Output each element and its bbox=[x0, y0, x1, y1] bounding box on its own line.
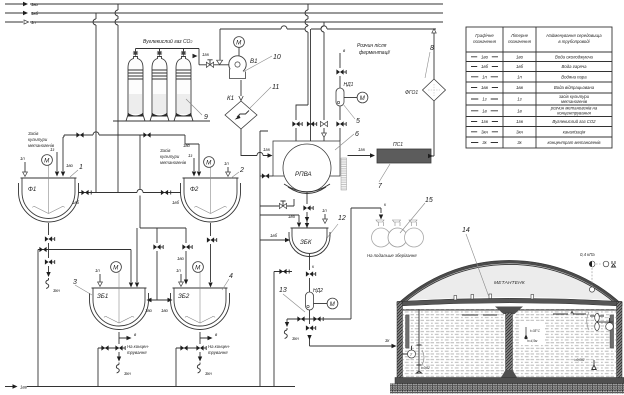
svg-text:метаногенів: метаногенів bbox=[561, 99, 588, 104]
collector vertical x260 bbox=[260, 131, 268, 386]
svg-text:ЗБ1: ЗБ1 bbox=[97, 293, 108, 300]
pipe 1п header line L3 bbox=[5, 21, 443, 23]
valve with handwheel bbox=[206, 60, 213, 68]
svg-text:3: 3 bbox=[73, 279, 77, 286]
vessel РПВА bbox=[273, 141, 347, 194]
РПВА bottom drain line left bbox=[260, 205, 294, 207]
feed pipes into Ф1 top bbox=[57, 135, 64, 171]
wire x140 drop bbox=[139, 135, 141, 228]
svg-text:3кн: 3кн bbox=[292, 336, 299, 341]
svg-text:метаногенів: метаногенів bbox=[160, 160, 187, 165]
cylinder 1 bbox=[126, 49, 145, 122]
valve НД1 discharge bbox=[336, 121, 346, 126]
svg-text:12: 12 bbox=[338, 215, 346, 222]
heat exchanger ПС1 bbox=[377, 149, 431, 163]
svg-text:3кн: 3кн bbox=[516, 129, 523, 134]
ЗБК left drain bbox=[274, 272, 292, 387]
svg-text:Засів: Засів bbox=[160, 148, 171, 153]
svg-text:Засів: Засів bbox=[28, 131, 39, 136]
svg-text:0,4 кПа: 0,4 кПа bbox=[580, 252, 595, 257]
wire drop x324 from L3 bbox=[321, 22, 324, 120]
svg-text:1п: 1п bbox=[517, 74, 522, 79]
svg-text:1во: 1во bbox=[31, 2, 39, 7]
svg-text:Ф1: Ф1 bbox=[28, 186, 36, 193]
pipe К1 to РПВА inlet with jump over x260 bbox=[241, 129, 269, 156]
motor M НД1 bbox=[357, 92, 368, 103]
svg-text:Водяна пара: Водяна пара bbox=[561, 74, 587, 79]
pipe seed header y135 bbox=[64, 132, 185, 135]
pipe 1во header line L1 bbox=[5, 3, 443, 5]
svg-text:11: 11 bbox=[272, 84, 279, 91]
svg-text:3кн: 3кн bbox=[124, 371, 131, 376]
svg-text:В1: В1 bbox=[250, 58, 258, 65]
dome gas space fill bbox=[397, 260, 622, 304]
НД1 feed line bbox=[339, 53, 341, 141]
motor M ЗБ2 bbox=[193, 262, 204, 273]
pipe waste collector 1вв bbox=[5, 386, 295, 388]
valve НД1 suction bbox=[336, 69, 346, 74]
svg-text:в трубопроводі: в трубопроводі bbox=[558, 39, 590, 44]
METHANE TANK cross-section bbox=[390, 227, 624, 394]
svg-text:1гв: 1гв bbox=[516, 119, 524, 124]
svg-text:1гв: 1гв bbox=[263, 147, 271, 152]
legend row 1во bbox=[471, 54, 594, 59]
svg-text:К1: К1 bbox=[227, 95, 234, 102]
svg-text:трування: трування bbox=[127, 350, 147, 355]
pipe fan outlet down bbox=[240, 80, 242, 96]
svg-text:8: 8 bbox=[430, 45, 434, 52]
svg-text:1вб: 1вб bbox=[270, 233, 278, 238]
svg-text:9: 9 bbox=[204, 114, 208, 121]
ЗБ1 bottom drain bbox=[98, 332, 128, 386]
drop x157 to ЗБ1/ЗБ2 bbox=[148, 228, 172, 300]
svg-text:1в: 1в bbox=[517, 108, 522, 113]
svg-text:h=4,5м: h=4,5м bbox=[527, 339, 538, 343]
liquid with masonry texture bbox=[403, 309, 617, 378]
svg-text:1вб: 1вб bbox=[516, 64, 524, 69]
svg-text:2: 2 bbox=[239, 167, 244, 174]
1вб arrow into ЗБК side bbox=[260, 239, 286, 241]
svg-text:Вода відпрацьована: Вода відпрацьована bbox=[554, 85, 595, 90]
svg-text:1з: 1з bbox=[517, 97, 521, 102]
legend row 1вб bbox=[471, 64, 587, 69]
legend row 1вв bbox=[471, 85, 595, 90]
svg-text:1во: 1во bbox=[516, 54, 524, 59]
vessel ЗБ1 seed tank bbox=[90, 272, 149, 329]
ceiling slab band bbox=[397, 298, 622, 306]
floor slab bbox=[395, 378, 624, 384]
svg-text:4: 4 bbox=[229, 273, 233, 280]
РПВА outlet to ПС1 bbox=[348, 155, 371, 157]
svg-text:Вода гаряча: Вода гаряча bbox=[562, 64, 588, 69]
ЗБК bottom line to НД2 bbox=[309, 254, 311, 292]
svg-text:культури: культури bbox=[28, 137, 48, 142]
motor M of fan B1 bbox=[234, 37, 245, 48]
svg-text:1п: 1п bbox=[95, 268, 100, 273]
svg-text:Найменування середовища: Найменування середовища bbox=[546, 33, 602, 38]
pipe cylinder header bbox=[136, 49, 200, 65]
svg-text:Літерне: Літерне bbox=[510, 33, 529, 38]
РПВА top feed pipes and valves bbox=[295, 108, 297, 141]
svg-text:Вуглекислий газ СО2: Вуглекислий газ СО2 bbox=[143, 38, 192, 45]
svg-text:15: 15 bbox=[425, 197, 433, 204]
vessel ЗБК collector bbox=[289, 228, 330, 257]
svg-text:На подальше зберігання: На подальше зберігання bbox=[367, 253, 417, 258]
legend row 3к bbox=[471, 140, 601, 145]
filter ФГО1 bbox=[423, 79, 446, 101]
svg-text:Вода охолоджуюча: Вода охолоджуюча bbox=[555, 54, 594, 59]
Ф2 bottom drain bbox=[210, 223, 212, 282]
level marks bbox=[462, 314, 497, 316]
concentrate line to tank bbox=[310, 319, 393, 346]
valve jacket Ф2 bbox=[161, 190, 171, 195]
svg-text:1п: 1п bbox=[482, 74, 487, 79]
drop x186 to bottom bbox=[185, 228, 187, 280]
svg-text:Ф2: Ф2 bbox=[190, 186, 199, 193]
pipe gas line L4 bbox=[220, 26, 436, 29]
svg-text:1з: 1з bbox=[188, 153, 192, 158]
svg-text:1гв: 1гв bbox=[202, 52, 210, 57]
pipe y228 manifold bbox=[140, 227, 186, 229]
svg-text:Розчин після: Розчин після bbox=[357, 43, 387, 49]
ЗБ2 bottom drain bbox=[176, 332, 209, 387]
svg-text:ЗБ2: ЗБ2 bbox=[178, 293, 190, 300]
legend row 1гв bbox=[471, 119, 596, 124]
liquid surface line bbox=[403, 309, 617, 311]
wire drop x308 from L1 bbox=[305, 4, 308, 105]
svg-text:6: 6 bbox=[355, 131, 359, 138]
legend row 1п bbox=[471, 74, 587, 79]
dome shell hatched band bbox=[398, 262, 621, 305]
svg-text:1во: 1во bbox=[66, 163, 74, 168]
Ф1 bottom drain bbox=[38, 223, 49, 386]
svg-text:1п: 1п bbox=[176, 268, 181, 273]
thermometer box bbox=[519, 321, 545, 345]
tank right wall bbox=[617, 302, 623, 378]
svg-text:5: 5 bbox=[356, 118, 360, 125]
svg-text:1п: 1п bbox=[224, 161, 229, 166]
pipe 1вб header line L2 bbox=[5, 12, 443, 14]
РПВА left drain valve stub bbox=[260, 175, 273, 177]
svg-text:1во: 1во bbox=[481, 54, 489, 59]
svg-text:1во: 1во bbox=[177, 256, 185, 261]
legend header text bbox=[473, 33, 602, 44]
svg-text:На концен-: На концен- bbox=[127, 344, 150, 349]
svg-text:t=35°С: t=35°С bbox=[530, 329, 541, 333]
svg-text:трування: трування bbox=[208, 350, 228, 355]
storage flasks bbox=[372, 220, 424, 247]
pump НД1 bbox=[336, 88, 344, 106]
Ф1 branch to ЗБ1 bbox=[49, 228, 138, 282]
feed pipes into Ф2 top bbox=[185, 135, 199, 171]
valve on y135 left bbox=[76, 132, 83, 137]
svg-text:культури: культури bbox=[160, 154, 180, 159]
wire branch to x296 bbox=[296, 105, 308, 108]
arrow 1п open bbox=[24, 20, 29, 24]
motor M НД2 bbox=[327, 298, 338, 309]
РПВА bottom center drain bbox=[306, 192, 308, 228]
vessel ЗБ2 seed tank bbox=[171, 272, 230, 329]
svg-text:10: 10 bbox=[273, 54, 281, 61]
wire drop x118 from L1 bbox=[115, 4, 118, 193]
legend row 1в bbox=[471, 106, 598, 116]
svg-text:РПВА: РПВА bbox=[295, 171, 312, 178]
wire drop x96 from L2 bbox=[93, 13, 96, 192]
vessel Ф2 fermenter bbox=[181, 167, 241, 222]
svg-text:1гв: 1гв bbox=[481, 119, 489, 124]
valve on y135 right bbox=[143, 132, 150, 137]
svg-text:3кн: 3кн bbox=[53, 288, 60, 293]
right mixer cluster bbox=[587, 312, 589, 330]
pipe ФГО1 up to gas line bbox=[433, 33, 435, 79]
arrow 1во bbox=[23, 2, 28, 6]
svg-text:і=0,02: і=0,02 bbox=[421, 366, 430, 370]
svg-text:концентрування: концентрування bbox=[557, 111, 591, 116]
svg-text:ПС1: ПС1 bbox=[393, 142, 403, 148]
svg-text:1во: 1во bbox=[161, 308, 169, 313]
legend table frame bbox=[466, 27, 612, 148]
svg-text:1в: 1в bbox=[482, 108, 487, 113]
svg-text:1вв: 1вв bbox=[20, 385, 28, 390]
legend row 1з bbox=[471, 94, 590, 104]
svg-text:14: 14 bbox=[462, 227, 470, 234]
svg-text:Графічне: Графічне bbox=[475, 33, 494, 38]
arrow 1вб bbox=[23, 11, 28, 15]
feed from collector x260 into ЗБК top bbox=[260, 215, 299, 222]
svg-text:1вв: 1вв bbox=[516, 85, 524, 90]
svg-text:3кн: 3кн bbox=[481, 129, 488, 134]
svg-text:1п: 1п bbox=[31, 20, 36, 25]
motor M ЗБ1 bbox=[111, 262, 122, 273]
pump НД2 bbox=[306, 292, 314, 310]
svg-text:каналізація: каналізація bbox=[563, 129, 586, 134]
relief valve symbols bbox=[589, 261, 592, 267]
svg-text:1з: 1з bbox=[50, 147, 54, 152]
vessel Ф1 fermenter bbox=[19, 165, 79, 222]
ceiling nozzles bbox=[454, 294, 534, 300]
ground hatch band bbox=[390, 384, 624, 394]
svg-text:3кн: 3кн bbox=[205, 371, 212, 376]
fan B1 bbox=[229, 56, 246, 79]
ground line under cylinders bbox=[113, 120, 210, 122]
arrow into РПВА bbox=[268, 153, 273, 157]
svg-text:ЗБК: ЗБК bbox=[300, 239, 312, 246]
svg-text:1п: 1п bbox=[322, 208, 327, 213]
cylinder 2 bbox=[150, 49, 169, 122]
right wall inner strip bbox=[610, 315, 614, 348]
svg-text:НД1: НД1 bbox=[344, 82, 354, 88]
svg-text:концентрат метаногенів: концентрат метаногенів bbox=[547, 140, 601, 145]
wire branch x310 from L4 to РПВА valve bbox=[310, 29, 312, 120]
svg-text:МЕТАНТЕНК: МЕТАНТЕНК bbox=[494, 280, 526, 286]
pipe cylinders to fan bbox=[199, 64, 229, 66]
svg-text:1з: 1з bbox=[482, 97, 486, 102]
svg-text:На концен-: На концен- bbox=[208, 344, 231, 349]
funnel vent on L4 drop bbox=[217, 60, 223, 64]
svg-text:позначення: позначення bbox=[508, 39, 532, 44]
svg-text:1вб: 1вб bbox=[172, 200, 180, 205]
svg-text:ферментації: ферментації bbox=[359, 50, 391, 56]
central column bbox=[495, 307, 523, 315]
svg-text:1: 1 bbox=[79, 164, 83, 171]
НД2 discharge manifold bbox=[287, 208, 381, 322]
К1 heater diamond bbox=[225, 101, 257, 129]
svg-text:1гв: 1гв bbox=[358, 147, 366, 152]
svg-text:і=0,002: і=0,002 bbox=[574, 358, 585, 362]
svg-text:1п: 1п bbox=[20, 156, 25, 161]
valve jacket Ф1 bbox=[81, 190, 91, 195]
motor M Ф1 bbox=[42, 155, 53, 166]
svg-text:1вб: 1вб bbox=[72, 200, 80, 205]
svg-text:ФГО1: ФГО1 bbox=[405, 90, 418, 96]
svg-text:Вуглекислий газ СО2: Вуглекислий газ СО2 bbox=[552, 119, 596, 124]
svg-text:НД2: НД2 bbox=[313, 288, 323, 294]
pipe ПС1 to ФГО1 bbox=[431, 101, 434, 156]
open arrow down into К1 bbox=[239, 96, 243, 101]
wire L4 corner down to fan inlet funnel bbox=[219, 29, 221, 61]
svg-text:1вв: 1вв bbox=[481, 85, 489, 90]
motor M Ф2 bbox=[204, 157, 215, 168]
svg-text:позначення: позначення bbox=[473, 39, 497, 44]
tank left wall bbox=[397, 302, 403, 378]
pipe jacket link Ф1-Ф2 y192.5 bbox=[79, 189, 181, 192]
svg-text:1вб: 1вб bbox=[481, 64, 489, 69]
legend row 3кн bbox=[471, 129, 586, 134]
svg-text:1во: 1во bbox=[183, 143, 191, 148]
svg-text:1вб: 1вб bbox=[31, 11, 39, 16]
cylinder 3 bbox=[174, 49, 193, 122]
arrow 1гв into fan line bbox=[193, 54, 198, 58]
left instrument cluster bbox=[406, 315, 410, 348]
svg-text:13: 13 bbox=[279, 287, 287, 294]
